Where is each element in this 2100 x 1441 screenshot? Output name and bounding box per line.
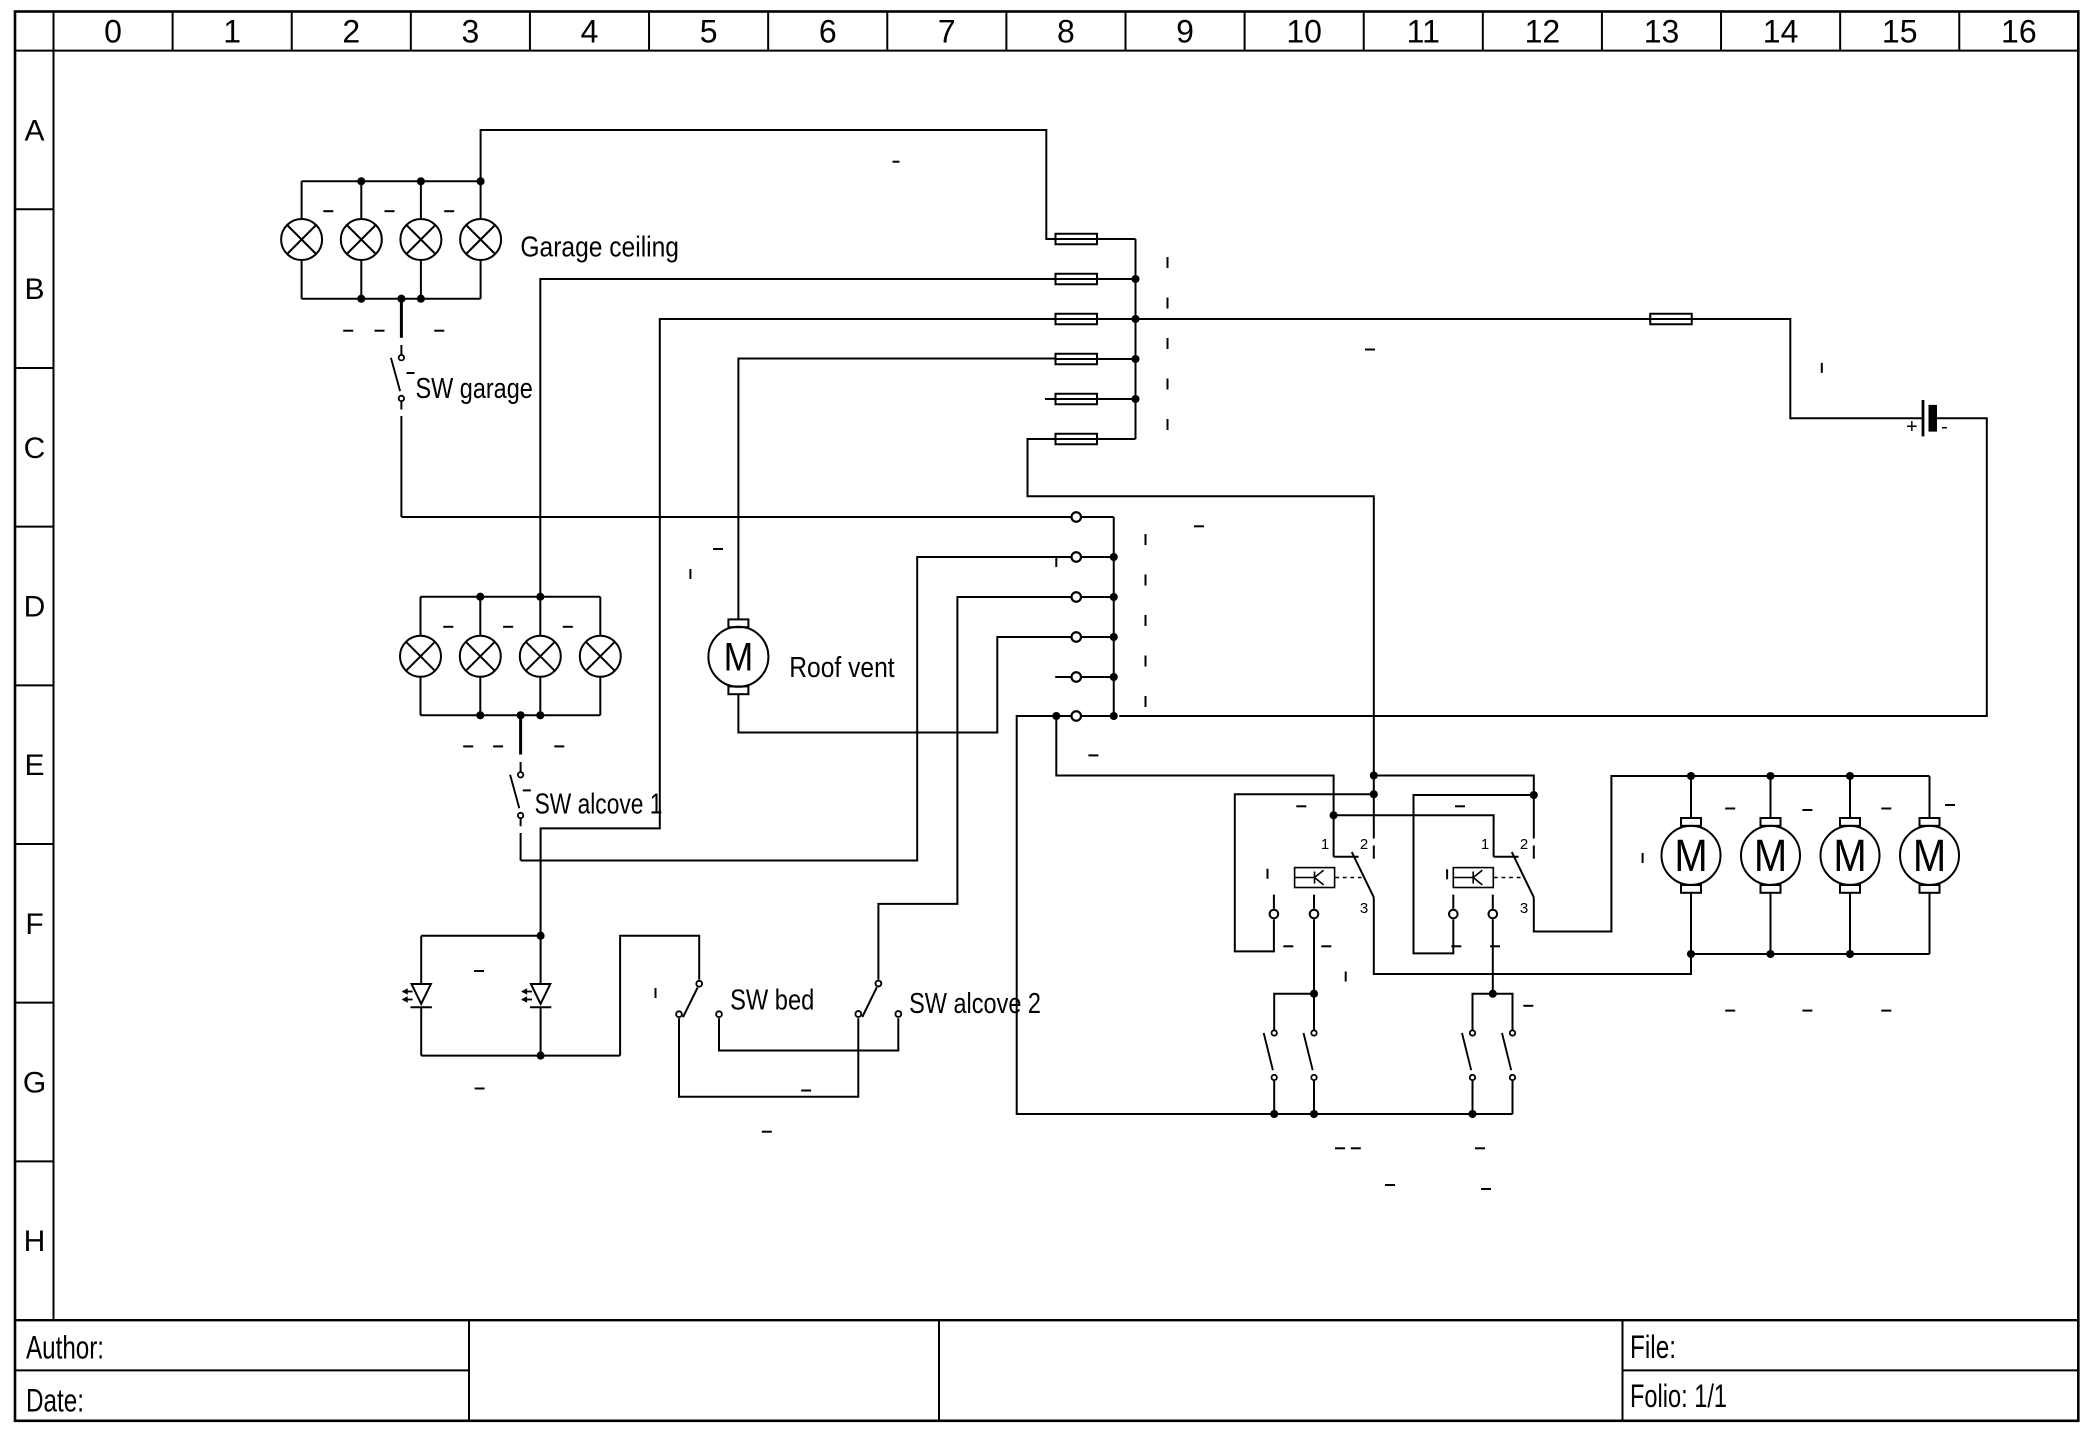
wire bottom bus L2 xyxy=(421,714,601,716)
connector terminal X1 xyxy=(1072,512,1082,522)
svg-text:11: 11 xyxy=(1407,14,1440,50)
svg-text:14: 14 xyxy=(1763,14,1799,50)
svg-text:Date:: Date: xyxy=(26,1383,84,1419)
wire SW garage to connector row1 xyxy=(401,402,1070,517)
row letters A-H xyxy=(23,114,46,1258)
svg-text:SW alcove 2: SW alcove 2 xyxy=(909,988,1041,1020)
motor M1 Roof vent xyxy=(708,619,768,694)
junction dot node B relay1 xyxy=(1370,790,1378,798)
wire roof vent motor to connector row4 xyxy=(738,637,1070,733)
wire fuse F2 to L2 top bus xyxy=(540,279,1055,597)
svg-text:1: 1 xyxy=(1321,836,1329,853)
fuse F6 xyxy=(1056,434,1098,445)
motor M2 xyxy=(1662,776,1721,954)
svg-text:15: 15 xyxy=(1882,14,1918,50)
junction dot pushbutton group1 split xyxy=(1310,990,1318,998)
junction dot relay1 pin1 xyxy=(1330,811,1338,819)
junction dot LED bottom bus xyxy=(537,1052,545,1060)
wire group1 split xyxy=(1274,994,1314,1030)
svg-text:Roof vent: Roof vent xyxy=(789,652,894,684)
relay2 dashed actuator link xyxy=(1494,877,1522,879)
wire motor bottom bus xyxy=(1691,953,1930,955)
wire relay2 coil pin B to pushbuttons xyxy=(1492,919,1494,994)
svg-text:13: 13 xyxy=(1644,14,1680,50)
switch SW alcove 2 xyxy=(855,981,901,1017)
junction dots fuse bus xyxy=(1131,275,1139,403)
motor M3 xyxy=(1741,776,1800,954)
junction dots L1 bottom bus xyxy=(357,295,425,303)
svg-text:SW garage: SW garage xyxy=(416,373,533,405)
dashed separator near fuses xyxy=(1167,257,1169,434)
wire SW alcove 2 to connector row3 xyxy=(878,597,1070,979)
label dashes xyxy=(323,162,1955,1189)
wire relay1 pin3 to motor bottom bus xyxy=(1374,912,1691,975)
wire fuse bus to fuse F7 xyxy=(1136,318,1651,320)
connector terminal X2 xyxy=(1072,552,1082,562)
svg-text:File:: File: xyxy=(1630,1329,1676,1365)
svg-text:-: - xyxy=(1941,416,1948,438)
svg-text:A: A xyxy=(24,114,44,147)
fuse F5 left pin stub xyxy=(1045,398,1056,400)
connector terminal X6 xyxy=(1072,711,1082,721)
wire LED bus to SW bed xyxy=(620,936,699,1056)
junction dot LED top bus xyxy=(537,932,545,940)
svg-text:H: H xyxy=(24,1225,46,1258)
svg-text:E: E xyxy=(24,749,44,782)
wire L2 bus to SW alcove 1 xyxy=(519,715,522,771)
LED D2 xyxy=(521,936,551,1056)
svg-text:12: 12 xyxy=(1525,14,1561,50)
svg-text:SW alcove 1: SW alcove 1 xyxy=(535,789,663,821)
lamp group L2 alcove - top bus wire xyxy=(421,596,601,598)
junction dot relay2 pin2 xyxy=(1530,791,1538,799)
fuse F2 xyxy=(1056,274,1098,285)
connector row5 left stub xyxy=(1055,676,1071,678)
junction dots connector bus xyxy=(1110,553,1118,720)
relay1 contact pins and blade xyxy=(1334,846,1374,912)
svg-text:4: 4 xyxy=(581,14,599,50)
svg-text:9: 9 xyxy=(1176,14,1194,50)
svg-text:C: C xyxy=(24,432,46,465)
lamp L2-2 xyxy=(460,597,501,716)
junction dots L1 top bus xyxy=(357,177,484,185)
svg-text:M: M xyxy=(1674,830,1707,881)
wire fuse F6 to relay supply node A xyxy=(1028,439,1374,776)
svg-text:2: 2 xyxy=(1520,836,1528,853)
lamp group L1 Garage ceiling - top bus wire xyxy=(302,180,481,182)
svg-text:Folio: 1/1: Folio: 1/1 xyxy=(1630,1378,1727,1414)
switch SW bed xyxy=(676,981,722,1017)
wire H3 relay1 pin1 to relay2 pin1 xyxy=(1334,815,1494,856)
junction dots L2 top bus xyxy=(476,593,544,601)
wires pushbuttons group2 to bus xyxy=(1473,1081,1513,1114)
wire row6 branch to relay commons H1a xyxy=(1056,716,1333,857)
svg-text:M: M xyxy=(724,636,754,680)
junction dots L2 bottom bus xyxy=(476,711,544,719)
lamp L1-2 xyxy=(341,181,382,298)
motor M5 xyxy=(1900,776,1959,954)
svg-text:D: D xyxy=(24,590,46,623)
svg-text:1: 1 xyxy=(1481,836,1489,853)
connector right pins to bus xyxy=(1082,517,1114,716)
wire relay2 pin3 to motor top bus xyxy=(1534,776,1691,932)
wire LED bottom bus xyxy=(421,1055,620,1057)
junction dots motor top bus xyxy=(1687,772,1854,780)
lamp L1-1 xyxy=(281,181,322,298)
wire motor top bus xyxy=(1691,775,1930,777)
svg-text:M: M xyxy=(1913,830,1946,881)
fuse F1 xyxy=(1056,234,1098,245)
svg-text:M: M xyxy=(1754,830,1787,881)
pushbutton S2 xyxy=(1304,1030,1317,1080)
svg-text:B: B xyxy=(24,273,44,306)
svg-text:3: 3 xyxy=(1360,900,1368,917)
wire relay1 coil pin B to pushbuttons xyxy=(1313,919,1315,994)
svg-text:16: 16 xyxy=(2001,14,2037,50)
relay1 dashed actuator link xyxy=(1335,877,1361,879)
svg-text:3: 3 xyxy=(461,14,479,50)
wire bottom bus L1 xyxy=(302,298,481,300)
relay1 coil pin circles xyxy=(1270,895,1319,919)
wire fuse F4 to roof vent motor xyxy=(738,359,1055,620)
wire H2 node B to relay1 coil pin A xyxy=(1235,794,1374,951)
svg-text:F: F xyxy=(25,908,43,941)
wire battery to connector bus row6 xyxy=(1119,418,1987,716)
lamp L1-4 xyxy=(460,181,501,298)
lamp L2-3 xyxy=(520,597,561,716)
lamp L1-3 xyxy=(400,181,441,298)
junction dot pushbutton group2 split xyxy=(1489,990,1497,998)
svg-text:10: 10 xyxy=(1286,14,1322,50)
junction dots motor bottom bus xyxy=(1687,950,1854,958)
svg-text:0: 0 xyxy=(104,14,122,50)
switch SW garage xyxy=(391,355,404,401)
dashed separator near connectors xyxy=(1145,534,1147,718)
lamp L2-4 xyxy=(580,597,621,716)
svg-text:8: 8 xyxy=(1057,14,1075,50)
svg-text:3: 3 xyxy=(1520,900,1528,917)
battery BT1 xyxy=(1923,400,1937,436)
fuse F7 xyxy=(1650,314,1692,325)
svg-text:7: 7 xyxy=(938,14,956,50)
svg-text:2: 2 xyxy=(342,14,360,50)
wires pushbuttons group1 to bus xyxy=(1274,1081,1314,1114)
lamp L2-1 xyxy=(400,597,441,716)
pushbutton S4 xyxy=(1502,1030,1515,1080)
wire fuse F3 to LED bus xyxy=(541,319,1056,936)
fuse F3 xyxy=(1056,314,1098,325)
wire pushbutton bottom bus xyxy=(1274,1113,1512,1115)
wire relay1 pin2 xyxy=(1373,776,1375,839)
wire LED top bus xyxy=(421,935,540,937)
junction dots pushbutton bus xyxy=(1270,1110,1476,1118)
title block xyxy=(15,1320,2078,1421)
svg-text:5: 5 xyxy=(700,14,718,50)
junction dot node A fuse6 supply xyxy=(1370,771,1378,779)
pushbutton S1 xyxy=(1264,1030,1277,1080)
wire SW bed terminal to SW alcove 2 terminal xyxy=(719,1018,898,1050)
relay1 opto coil U1 xyxy=(1295,868,1335,888)
fuse F4 xyxy=(1056,354,1098,365)
svg-text:+: + xyxy=(1906,416,1918,438)
fuse F5 xyxy=(1056,394,1098,405)
svg-text:6: 6 xyxy=(819,14,837,50)
svg-text:1: 1 xyxy=(223,14,241,50)
motor M4 xyxy=(1821,776,1880,954)
svg-text:SW bed: SW bed xyxy=(730,985,814,1017)
connector terminal X5 xyxy=(1072,672,1082,682)
column numbers 0-16 xyxy=(104,14,2036,50)
wire SW bed blade to SW alcove 2 blade xyxy=(679,1018,858,1096)
wire group2 split xyxy=(1473,994,1513,1030)
wire SW alcove 1 to connector row2 xyxy=(521,557,1071,861)
relay2 opto coil U2 xyxy=(1453,868,1493,888)
wire fuse right pins to bus xyxy=(1097,239,1136,439)
svg-text:2: 2 xyxy=(1360,836,1368,853)
svg-text:Garage ceiling: Garage ceiling xyxy=(520,232,679,264)
wire H2b to relay2 coil pin A xyxy=(1414,795,1534,953)
connector terminal X3 xyxy=(1072,592,1082,602)
svg-text:G: G xyxy=(23,1067,46,1100)
LED D1 xyxy=(402,936,432,1056)
relay2 coil pin circles xyxy=(1449,895,1497,919)
junction dot row6 branch xyxy=(1052,712,1060,720)
svg-text:M: M xyxy=(1833,830,1866,881)
pushbutton S3 xyxy=(1462,1030,1475,1080)
wire node A to relay2 pin2 H1b xyxy=(1374,776,1534,796)
connector terminal X4 xyxy=(1072,632,1082,642)
switch SW alcove 1 xyxy=(510,772,523,818)
wire lamp bus to SW garage xyxy=(400,299,403,338)
relay2 contact pins and blade xyxy=(1494,846,1534,912)
wire L1 feed to fuse F1 xyxy=(481,130,1056,239)
wire relay2 pin2 xyxy=(1533,795,1535,839)
wire connector row6 to pushbutton bus xyxy=(1017,716,1274,1114)
wire fuse F7 to battery xyxy=(1692,319,1922,418)
svg-text:Author:: Author: xyxy=(26,1329,104,1365)
